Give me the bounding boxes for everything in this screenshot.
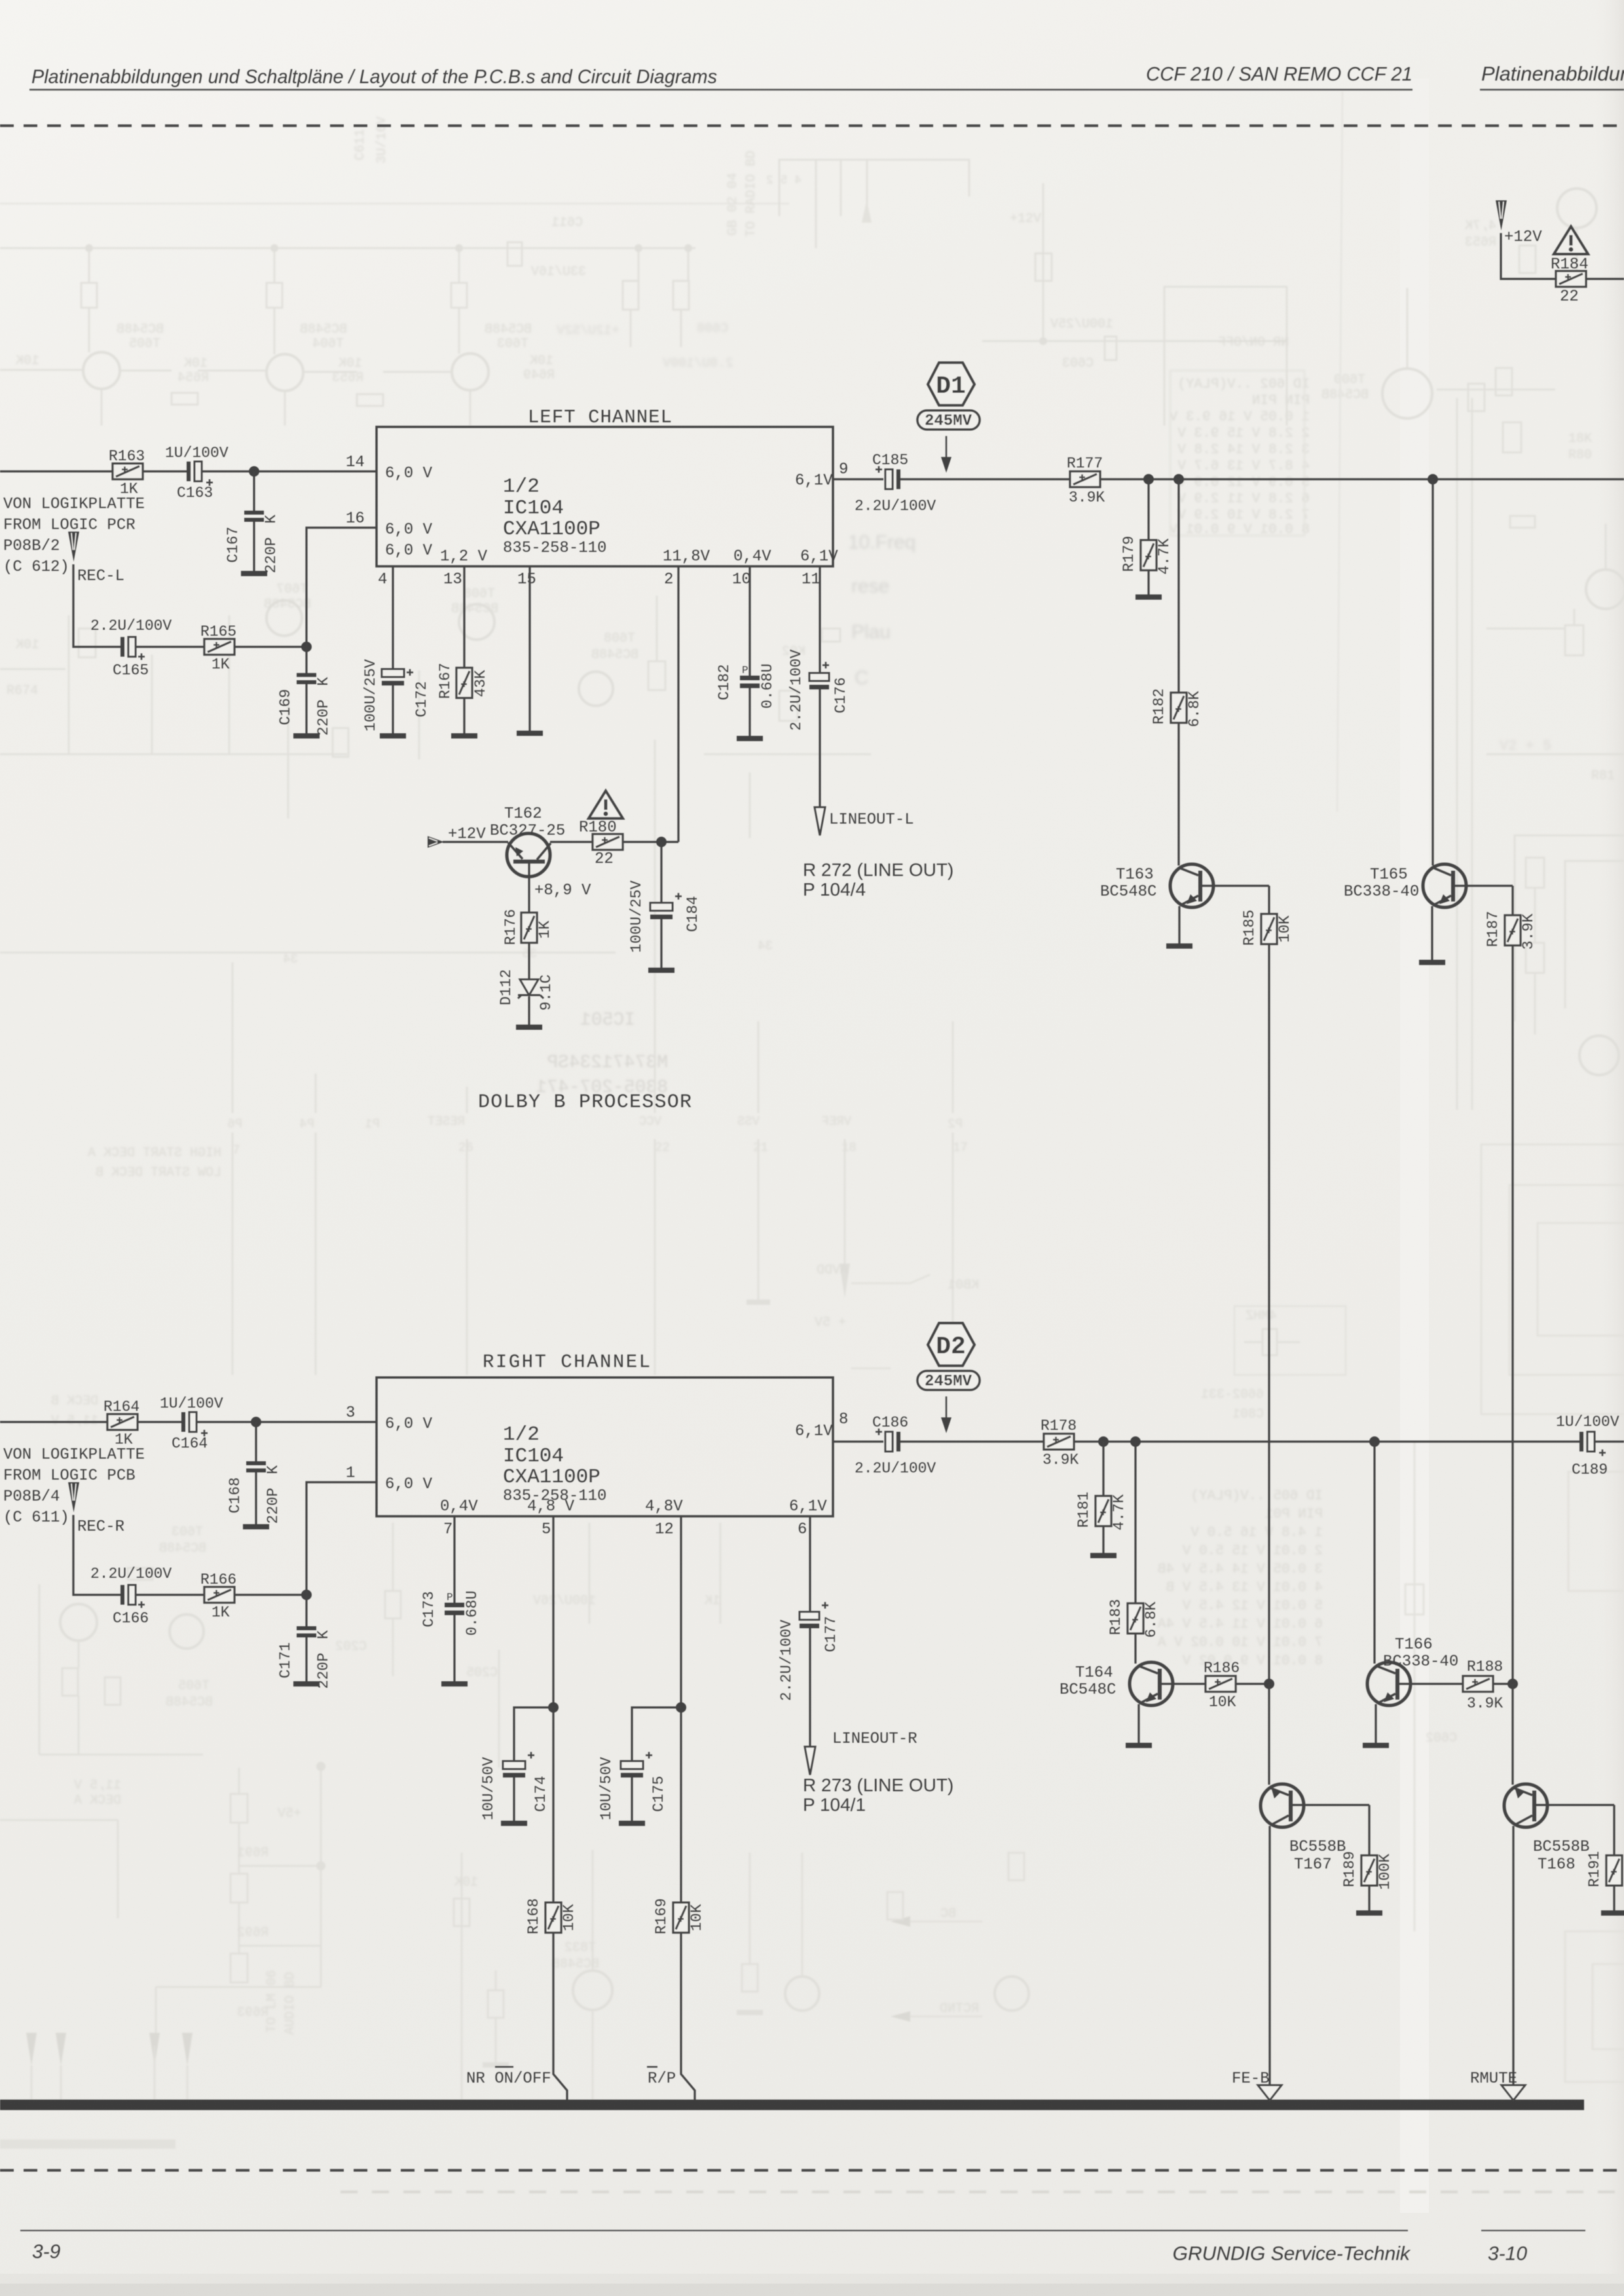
wire up to pin 16 (306, 528, 377, 647)
ground (1090, 1553, 1116, 1558)
wire to junction (234, 1594, 306, 1595)
net RMUTE arrow (1502, 2085, 1525, 2100)
wire base to R191 (1613, 1805, 1615, 1855)
warning triangle (589, 791, 623, 818)
ground (1419, 960, 1445, 965)
resistor R187 3.9K (1511, 886, 1513, 915)
pin 6 wire down (809, 1516, 811, 1612)
ground (451, 733, 477, 738)
wire control line to T168 (1511, 1684, 1513, 1785)
ground (501, 1821, 527, 1826)
resistor R164 (107, 1414, 138, 1430)
text VON LOGIKPLATTE block (3, 496, 145, 585)
wire (143, 470, 187, 472)
wire up to pin 1 (306, 1482, 377, 1595)
ground (241, 571, 267, 576)
wire (138, 1421, 181, 1423)
ghost nested rectangles right (1405, 1144, 1624, 2082)
connector REC-L (68, 532, 79, 562)
wire R186 to control line (1236, 1683, 1269, 1685)
capacitor C172 100U/25V (382, 669, 413, 685)
capacitor C184 100U/25V (650, 893, 682, 919)
bottom page edge (0, 2284, 1624, 2296)
wire branch to C174 (514, 1707, 553, 1761)
connector REC-R (68, 1482, 79, 1512)
footer texts (32, 2241, 1527, 2265)
node junction (1264, 1679, 1274, 1689)
node junction (1130, 1436, 1141, 1447)
pin 15 wire down (528, 566, 530, 731)
wire (202, 470, 377, 472)
ground (1135, 594, 1162, 600)
pin 13 wire down (463, 566, 465, 668)
ground (1126, 1743, 1152, 1748)
wire (900, 478, 1624, 480)
node junction (249, 466, 259, 477)
node junction (1369, 1436, 1380, 1447)
capacitor C164 1U/100V (181, 1412, 208, 1436)
node LINEOUT-L (829, 811, 914, 829)
resistor R176 1K (521, 913, 537, 943)
resistor R185 10K (1268, 886, 1270, 914)
ground (1363, 1743, 1389, 1748)
lineout-L open arrow (815, 807, 825, 835)
wire to right edge (1595, 1440, 1624, 1442)
ghost voltage table top right (mirrored) (1169, 371, 1310, 538)
capacitor C169 220P (305, 647, 307, 673)
voltage label (534, 882, 591, 900)
pin 5 wire down (NR ON/OFF) (552, 1516, 554, 1903)
ghost handwriting 10.Freq notes (848, 532, 915, 689)
wire +12V to T162 (443, 841, 508, 843)
node junction (548, 1702, 559, 1713)
resistor R169 10K (673, 1903, 689, 1933)
net label NR ON/OFF (466, 2070, 551, 2088)
capacitor C186 2.2U/100V (876, 1429, 900, 1451)
ground (517, 731, 543, 736)
wire input REC-L to pin14 (0, 470, 113, 472)
wire control line to T167 (1268, 1684, 1270, 1785)
wire to junction (234, 646, 306, 647)
wire control line RMUTE down (1511, 945, 1513, 1684)
ghost faint dashed line bottom (341, 2191, 1624, 2193)
ghost arrows right-center (785, 1853, 1029, 2022)
upper-left midline ghost wires (0, 582, 871, 838)
ground (293, 1681, 320, 1686)
resistor R186 10K (1206, 1676, 1236, 1692)
resistor R188 3.9K (1463, 1676, 1493, 1692)
capacitor C166 2.2U/100V (120, 1585, 145, 1608)
wire R182 branch down to T163 (1177, 479, 1179, 693)
wire R179 branch (1147, 479, 1149, 540)
capacitor C174 10U/50V (503, 1752, 534, 1777)
right page edge slightly darker (0, 0, 1, 1)
node junction (1143, 474, 1154, 484)
wire base to R189 (1368, 1805, 1370, 1855)
pin 4 wire down (392, 566, 394, 669)
node 245MV oval (917, 1371, 980, 1391)
wire input REC-R to pin 3 (0, 1421, 107, 1423)
ground (619, 1821, 645, 1826)
node junction (1098, 1436, 1109, 1447)
wire arrow from D2 to wire (941, 1396, 951, 1433)
wire (196, 1421, 377, 1423)
wire from REC-R down and right (73, 1515, 120, 1595)
node junction (676, 1702, 686, 1713)
node 245MV oval (917, 410, 980, 430)
net FE-B arrow (1258, 2085, 1282, 2100)
resistor R177 3.9K (1070, 471, 1100, 487)
header title left (31, 62, 1624, 88)
node junction (1507, 1679, 1518, 1689)
wire T166 collector from main wire (1373, 1442, 1375, 1664)
diode test point D2 hexagon (928, 1323, 974, 1366)
wire (253, 522, 255, 571)
op-amp IC104 (1/2) right channel box (377, 1377, 833, 1516)
wire pin 9 output main left (833, 478, 883, 480)
node junction (251, 1417, 261, 1427)
capacitor C171 220P (305, 1595, 307, 1626)
ghost voltage table right channel (mirrored) (1158, 1489, 1323, 1669)
ghost circuit right of fold, upper (1457, 189, 1624, 1110)
wire T162 to R180 (550, 841, 593, 843)
capacitor C165 2.2U/100V (120, 637, 145, 660)
+12V connector top right (1496, 200, 1507, 230)
ground (441, 1681, 468, 1686)
resistor R181 4.7K (1096, 1496, 1111, 1526)
node junction (656, 837, 667, 847)
ground (516, 1025, 542, 1030)
op-amp IC U=IC104 (1/2) left channel box (377, 427, 833, 566)
net label R/P (648, 2070, 676, 2088)
page fold light strip (1400, 79, 1429, 2213)
bottom dashed separator line (0, 2169, 1624, 2172)
node junction (301, 642, 312, 652)
capacitor C163 1U/100V (187, 462, 213, 486)
node LINEOUT-R (832, 1730, 917, 1748)
node junction (301, 1590, 312, 1600)
capacitor C175 10U/50V (621, 1752, 652, 1777)
wire T165 collector from main wire (1431, 479, 1433, 866)
capacitor C177 2.2U/100V (800, 1602, 828, 1628)
wire from REC-L down and right (73, 564, 120, 647)
wire R181 branch (1102, 1442, 1104, 1496)
pin 2 wire down (677, 566, 679, 842)
ground (1601, 1910, 1624, 1916)
ground (737, 736, 763, 741)
diode test point D1 hexagon (928, 363, 974, 405)
wire (136, 646, 204, 647)
resistor R168 10K (545, 1903, 561, 1933)
transistor T167 BC558B (1261, 1784, 1369, 2085)
+12V connector arrow (to T162) (428, 836, 444, 848)
ghost bottom-center cluster (454, 1850, 763, 2100)
resistor R182 6.8K (1171, 693, 1187, 723)
wire to thick bar (553, 1933, 567, 2100)
ghost left side of right channel (39, 1394, 213, 1755)
capacitor C167 220P (244, 511, 264, 522)
resistor R184 22 (1556, 271, 1586, 287)
top-left reverse-side circuit ghosts (0, 204, 789, 426)
wire to right edge (1586, 278, 1624, 280)
resistor R183 6.8K (1128, 1603, 1143, 1633)
capacitor C182 0.68U (740, 676, 760, 688)
ground (1356, 1910, 1382, 1916)
wire (900, 1440, 1579, 1442)
diode D112 9.1C zener (518, 979, 544, 998)
bottom thick bar (0, 2100, 1584, 2110)
ground (243, 1524, 269, 1529)
resistor R166 (204, 1587, 234, 1603)
resistor R167 43K (456, 668, 472, 698)
transistor T164 BC548C (1130, 1662, 1206, 1743)
transistor T162 BC327-25 (507, 833, 551, 913)
header underline (29, 89, 1412, 91)
transistor T163 BC548C (1170, 864, 1269, 943)
wire down to C184 (660, 842, 662, 903)
ghost verticals under right IC (335, 1523, 720, 1768)
capacitor C189 1U/100V (1579, 1432, 1606, 1456)
resistor R189 100K (1361, 1855, 1377, 1886)
lineout-R open arrow (805, 1747, 815, 1775)
wire down to C168 (255, 1422, 257, 1461)
node junction (1428, 474, 1438, 484)
wire R188 to control line (1493, 1683, 1513, 1685)
ground (648, 968, 674, 973)
ghost reverse-side mid band right (982, 92, 1555, 812)
transistor T165 BC338-40 (1423, 864, 1513, 960)
top-center reverse-side ghosts (353, 117, 969, 371)
footer rule (20, 2230, 1408, 2231)
transistor T166 BC338-40 (1367, 1662, 1463, 1743)
wire R183 branch down to T164 (1134, 1442, 1136, 1603)
resistor R165 (204, 639, 234, 655)
text VON LOGIKPLATTE block right (3, 1446, 145, 1536)
pin 7 wire down (453, 1516, 455, 1603)
capacitor C168 220P (246, 1461, 266, 1472)
resistor R191 (1606, 1855, 1622, 1886)
pin 10 wire down (748, 566, 750, 676)
warning triangle (1554, 227, 1588, 254)
paper grain overlay (0, 0, 1, 1)
resistor R178 3.9K (1044, 1434, 1074, 1449)
wire to thick bar (681, 1933, 695, 2100)
wire arrow from D1 to wire (941, 436, 951, 473)
capacitor C173 0.68U (445, 1603, 464, 1615)
wire +12V to R184 (1501, 233, 1556, 279)
pin 11 wire down (819, 566, 821, 673)
ground (293, 733, 320, 738)
resistor R180 22 (593, 834, 623, 850)
pin 12 wire down (R/P) (680, 1516, 682, 1903)
ghost reverse-side thick bar fragment (0, 2140, 175, 2149)
wire down to C167 (253, 471, 255, 511)
wire (1177, 723, 1179, 866)
capacitor C176 2.2U/100V (809, 662, 829, 689)
wire R176 to D112 (528, 943, 530, 979)
resistor R179 4.7K (1141, 540, 1156, 570)
resistor R163 (113, 464, 143, 479)
ground (380, 733, 406, 738)
ghost IC501 mirrored titles (536, 1010, 668, 1098)
transistor T168 BC558B (1504, 1784, 1614, 2085)
wire (136, 1594, 204, 1595)
wire T162 collector to pin2 (620, 841, 678, 843)
wire branch to C175 (632, 1707, 681, 1761)
wire control line FE down (1268, 944, 1270, 1684)
ground (1166, 943, 1192, 949)
wire pin 8 output main right (833, 1440, 883, 1442)
top dashed separator line (0, 124, 1624, 127)
ghost 4MHZ crystal area (1201, 1306, 1346, 1422)
capacitor C185 2.2U/100V (876, 466, 900, 489)
node junction (1173, 474, 1184, 484)
ghost IC501 pin row and verticals (88, 740, 979, 1375)
ghost bottom-left cluster (0, 1762, 325, 2100)
